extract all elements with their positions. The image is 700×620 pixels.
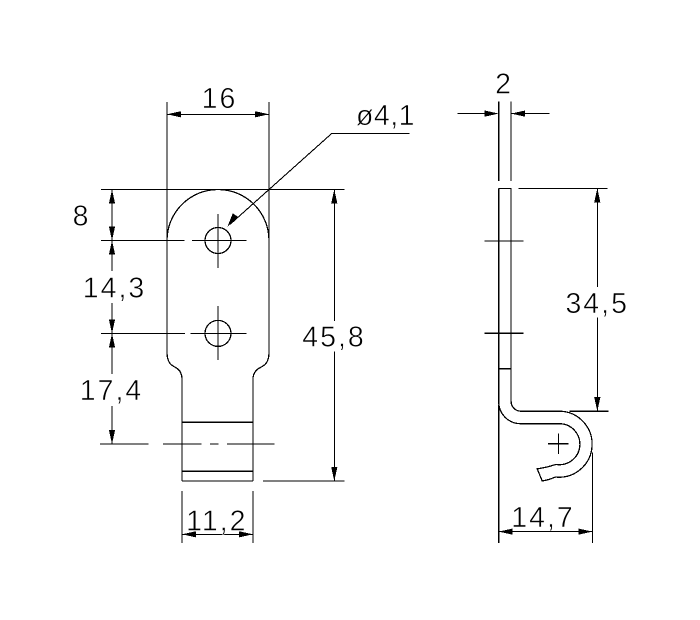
- dimension 2: extensions above: [498, 102, 500, 182]
- dimension 11.2: extensions, line, arrows, text: [181, 491, 183, 543]
- dimension 34.5: line, arrows, text: [596, 188, 598, 287]
- svg-text:16: 16: [202, 83, 238, 115]
- front view: bottom edge: [182, 480, 253, 482]
- front view: tab body left side + extension up to 16 dim: [167, 102, 182, 481]
- svg-text:45,8: 45,8: [302, 322, 365, 354]
- hole 2 circle: [205, 320, 231, 346]
- front view: rounded top full-radius arc: [167, 190, 269, 241]
- dimension 45.8: line, arrows, text, bottom extension: [333, 190, 335, 322]
- dimension 16: line and arrows: [167, 113, 269, 115]
- svg-text:2: 2: [495, 69, 511, 101]
- left dimension chain line x=112: [111, 190, 113, 272]
- chain arrows: [109, 190, 115, 204]
- side view: curl center mark: [548, 443, 569, 445]
- svg-text:34,5: 34,5: [565, 288, 628, 320]
- side view: hole 2 centerline tick: [485, 332, 524, 334]
- hole 2 vertical centerline: [217, 306, 219, 360]
- svg-text:14,7: 14,7: [511, 502, 574, 534]
- hole 2 horizontal centerline / extension to dim chain: [101, 332, 185, 334]
- front view: barrel line upper: [182, 421, 253, 423]
- svg-text:17,4: 17,4: [80, 375, 143, 407]
- front view: tab body right side + extension up to 16 dim: [253, 102, 269, 481]
- hole 1 horizontal centerline / extension to dim chain: [101, 240, 185, 242]
- dimension 14.7: line, arrows, text: [499, 531, 593, 533]
- svg-text:8: 8: [73, 201, 89, 233]
- dimension 34.5: extensions: [519, 187, 608, 189]
- svg-text:ø4,1: ø4,1: [356, 100, 415, 132]
- dimension 14.7: extensions: [498, 405, 500, 543]
- top extension line (8 / 45.8 datum): [101, 189, 344, 191]
- front view: barrel line lower: [182, 470, 253, 472]
- bend dash-dot line + 17.4 extension: [100, 443, 149, 445]
- hole 1 circle: [205, 228, 231, 254]
- side view: sheet cross-section outline with J-hook: [499, 188, 592, 481]
- svg-text:11,2: 11,2: [186, 506, 247, 538]
- leader for hole dia: underline, diagonal, arrow: [332, 132, 409, 134]
- dimension 2: line segments and outside arrows: [458, 113, 486, 115]
- side view: hole 1 centerline tick: [485, 240, 524, 242]
- hole 1 vertical centerline: [217, 214, 219, 268]
- side view: width-change edge: [499, 368, 510, 370]
- svg-text:14,3: 14,3: [83, 273, 146, 305]
